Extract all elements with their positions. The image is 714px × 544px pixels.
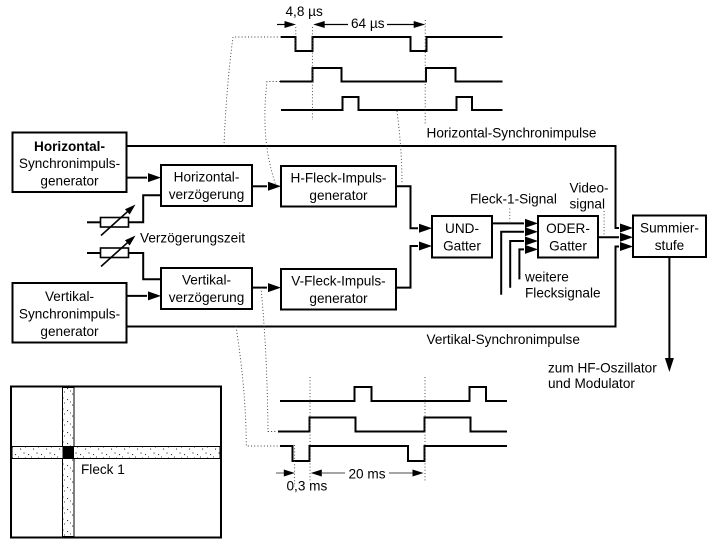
svg-text:signal: signal [570, 197, 606, 212]
svg-text:H-Fleck-Impuls-: H-Fleck-Impuls- [291, 171, 387, 186]
svg-text:verzögerung: verzögerung [169, 187, 245, 202]
svg-text:generator: generator [40, 324, 99, 339]
svg-text:64 µs: 64 µs [351, 16, 385, 31]
svg-text:Synchronimpuls-: Synchronimpuls- [19, 306, 120, 321]
svg-text:Summier-: Summier- [640, 221, 699, 236]
svg-text:Horizontal-: Horizontal- [174, 170, 240, 185]
svg-text:generator: generator [309, 188, 368, 203]
svg-text:Horizontal-: Horizontal- [34, 139, 105, 154]
svg-text:Gatter: Gatter [549, 238, 587, 253]
svg-text:stufe: stufe [655, 238, 684, 253]
svg-text:0,3 ms: 0,3 ms [287, 478, 328, 493]
svg-text:Fleck 1: Fleck 1 [81, 462, 125, 477]
svg-text:generator: generator [309, 291, 368, 306]
svg-text:Verzögerungszeit: Verzögerungszeit [140, 230, 245, 245]
svg-text:generator: generator [40, 174, 99, 189]
svg-text:ODER-: ODER- [546, 221, 590, 236]
svg-text:Fleck-1-Signal: Fleck-1-Signal [470, 192, 557, 207]
svg-text:weitere: weitere [524, 269, 569, 284]
svg-text:Horizontal-Synchronimpulse: Horizontal-Synchronimpulse [427, 125, 597, 140]
svg-text:Vertikal-: Vertikal- [182, 273, 231, 288]
svg-text:zum HF-Oszillator: zum HF-Oszillator [548, 361, 657, 376]
svg-text:verzögerung: verzögerung [169, 290, 245, 305]
svg-text:Flecksignale: Flecksignale [525, 286, 601, 301]
svg-text:20 ms: 20 ms [349, 466, 386, 481]
svg-text:UND-: UND- [445, 221, 479, 236]
svg-text:Video-: Video- [570, 180, 609, 195]
svg-text:Synchronimpuls-: Synchronimpuls- [19, 156, 120, 171]
svg-text:V-Fleck-Impuls-: V-Fleck-Impuls- [291, 274, 385, 289]
svg-text:Vertikal-: Vertikal- [45, 289, 94, 304]
svg-text:Gatter: Gatter [443, 238, 481, 253]
svg-text:und Modulator: und Modulator [548, 376, 635, 391]
svg-text:Vertikal-Synchronimpulse: Vertikal-Synchronimpulse [427, 332, 580, 347]
svg-text:4,8 µs: 4,8 µs [286, 4, 324, 19]
